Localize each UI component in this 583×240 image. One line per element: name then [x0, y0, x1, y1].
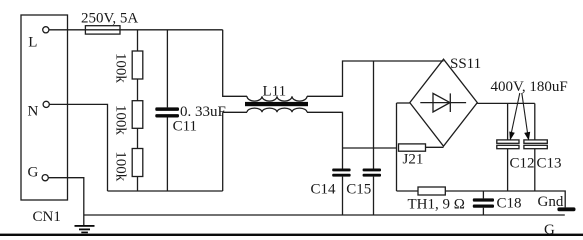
- svg-text:250V, 5A: 250V, 5A: [81, 11, 138, 27]
- svg-text:G: G: [544, 222, 555, 236]
- svg-text:L11: L11: [263, 84, 287, 100]
- svg-text:CN1: CN1: [33, 209, 61, 225]
- svg-text:C18: C18: [497, 196, 522, 212]
- svg-text:Gnd: Gnd: [538, 194, 564, 210]
- svg-text:100k: 100k: [113, 53, 129, 84]
- svg-text:400V, 180uF: 400V, 180uF: [491, 79, 568, 95]
- svg-text:G: G: [28, 165, 39, 181]
- svg-text:TH1, 9 Ω: TH1, 9 Ω: [408, 197, 465, 213]
- svg-text:C14: C14: [311, 181, 337, 197]
- svg-text:J21: J21: [403, 152, 424, 168]
- svg-text:C13: C13: [537, 156, 562, 172]
- svg-text:100k: 100k: [113, 105, 129, 135]
- svg-text:L: L: [28, 35, 37, 51]
- svg-text:C11: C11: [173, 119, 197, 135]
- svg-text:N: N: [28, 104, 39, 120]
- svg-text:C12: C12: [510, 156, 535, 172]
- svg-text:C15: C15: [346, 181, 371, 197]
- svg-text:100k: 100k: [113, 151, 129, 182]
- svg-text:SS11: SS11: [450, 56, 481, 72]
